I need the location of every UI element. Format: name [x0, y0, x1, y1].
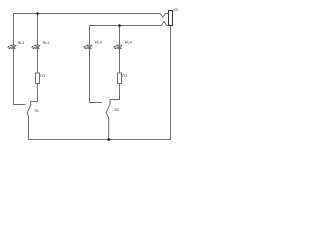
node junction dot on bottom bus	[107, 138, 110, 141]
wire left branch down to switch contact	[14, 14, 26, 105]
switch S2 blade and bottom lead	[106, 104, 110, 140]
LED HL2	[31, 45, 40, 49]
switch S1 blade and bottom lead	[27, 105, 31, 140]
wire second rail with plug chevron	[90, 21, 169, 25]
wire HL2 branch upper	[37, 14, 39, 74]
svg-text:S1: S1	[34, 109, 39, 113]
wire HL2 branch lower to switch pivot	[31, 84, 38, 105]
resistor R2	[118, 73, 122, 84]
svg-text:X1: X1	[173, 8, 178, 12]
wire right-cell left branch to switch contact	[90, 26, 102, 103]
svg-text:HL3: HL3	[95, 41, 102, 45]
node junction dot on second rail	[118, 24, 121, 27]
svg-text:HL4: HL4	[125, 41, 132, 45]
connector X1 plug	[169, 11, 173, 26]
resistor R1	[36, 73, 40, 84]
node junction dot on top rail	[36, 12, 39, 15]
wire bottom bus and right riser	[29, 25, 171, 139]
svg-text:R1: R1	[40, 74, 45, 78]
wire HL4 branch upper	[119, 26, 121, 74]
svg-text:HL2: HL2	[43, 41, 50, 45]
svg-text:HL1: HL1	[18, 41, 25, 45]
wire top rail with plug chevron	[14, 14, 169, 18]
LED HL3	[83, 45, 92, 49]
wire HL4 branch lower to switch pivot	[110, 84, 119, 104]
svg-text:S2: S2	[114, 108, 119, 112]
svg-text:R2: R2	[122, 74, 127, 78]
LED HL1	[7, 45, 16, 49]
LED HL4	[113, 45, 122, 49]
